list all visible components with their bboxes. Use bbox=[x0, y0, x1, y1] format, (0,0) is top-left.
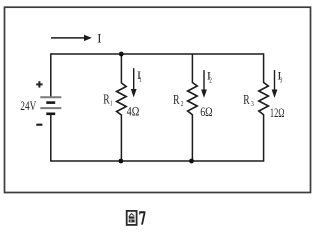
wire top from battery to R3 bbox=[51, 53, 264, 55]
wire bottom from battery to R3 bbox=[51, 160, 264, 162]
label R2 bbox=[173, 92, 184, 108]
svg-text:2: 2 bbox=[181, 99, 184, 108]
svg-text:12Ω: 12Ω bbox=[270, 106, 285, 120]
resistor R2 bbox=[188, 83, 198, 115]
wire battery bottom segment bbox=[50, 115, 52, 162]
label R1 bbox=[103, 92, 112, 108]
resistor R1 bbox=[117, 83, 127, 115]
svg-text:4Ω: 4Ω bbox=[127, 105, 140, 119]
svg-text:24V: 24V bbox=[20, 99, 36, 113]
label I1 bbox=[137, 68, 142, 84]
junction node top of R1 bbox=[119, 52, 124, 57]
battery B1 24V bbox=[40, 97, 61, 114]
label I3 bbox=[277, 68, 282, 84]
svg-text:6Ω: 6Ω bbox=[200, 105, 212, 119]
svg-text:R: R bbox=[173, 92, 179, 107]
wire R2 top stub bbox=[191, 54, 193, 83]
current arrow I3 bbox=[272, 70, 278, 98]
label I2 bbox=[207, 68, 212, 84]
svg-text:1: 1 bbox=[139, 75, 142, 84]
svg-text:3: 3 bbox=[280, 75, 283, 84]
junction node bottom of R1 bbox=[119, 159, 124, 164]
battery minus sign bbox=[36, 124, 42, 126]
svg-text:3: 3 bbox=[251, 99, 254, 108]
label R3 bbox=[243, 92, 254, 108]
wire battery top segment bbox=[50, 53, 52, 97]
current arrow I2 bbox=[201, 70, 207, 98]
svg-text:R: R bbox=[243, 92, 249, 107]
svg-text:R: R bbox=[103, 92, 109, 107]
wire R2 bottom stub bbox=[191, 114, 193, 161]
current arrow I bbox=[51, 35, 92, 41]
wire R3 top stub bbox=[263, 53, 265, 83]
svg-text:I: I bbox=[97, 31, 101, 45]
resistor R3 bbox=[259, 83, 269, 115]
battery plus sign bbox=[36, 81, 42, 87]
svg-text:1: 1 bbox=[110, 98, 113, 107]
junction node bottom of R2 bbox=[189, 159, 194, 164]
current arrow I1 bbox=[131, 68, 137, 97]
wire R3 bottom stub bbox=[263, 114, 265, 161]
caption figure 7 (Chinese character tu drawn as shapes) bbox=[127, 211, 146, 225]
wire R1 top stub bbox=[120, 54, 122, 84]
svg-text:2: 2 bbox=[209, 75, 212, 84]
wire R1 bottom stub bbox=[120, 115, 122, 162]
